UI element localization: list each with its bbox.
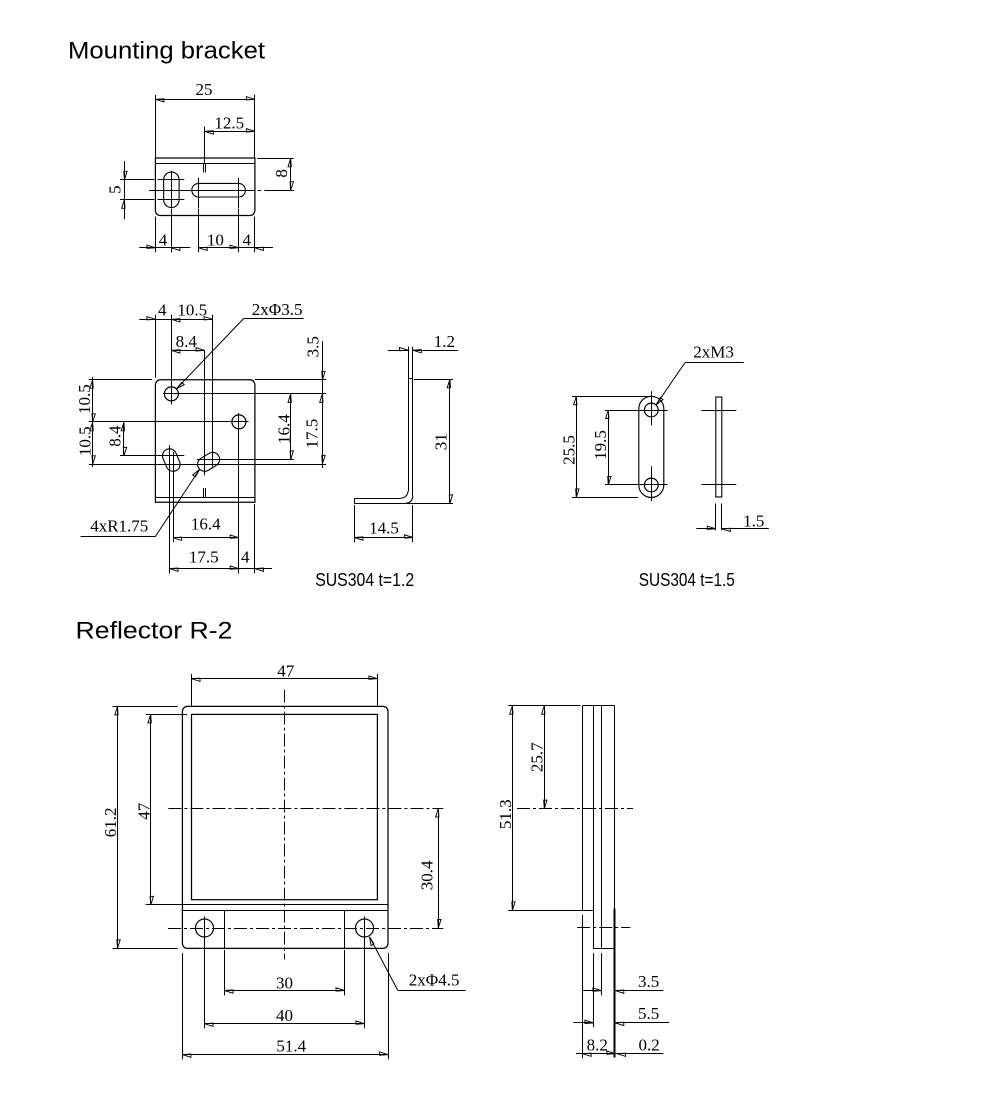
- svg-text:5: 5: [105, 185, 124, 194]
- reflector recess edges: [225, 910, 345, 948]
- svg-text:8.4: 8.4: [105, 425, 124, 447]
- svg-text:10.5: 10.5: [177, 301, 207, 320]
- side view vertical leg: [408, 347, 413, 497]
- svg-text:3.5: 3.5: [304, 336, 323, 357]
- bottom hole centerlines: [605, 466, 668, 501]
- svg-text:5.5: 5.5: [638, 1004, 659, 1023]
- reflector flange lines: [183, 905, 388, 911]
- dimension 12.5: [205, 113, 255, 134]
- dimension 16.4 bottom: [173, 515, 239, 541]
- dimension 25.5: [559, 396, 648, 497]
- bracket front view outline: [155, 380, 255, 503]
- side front face lines: [614, 706, 616, 1058]
- right hole centerlines: [89, 413, 249, 573]
- clamp plate bottom hole M3: [644, 478, 658, 492]
- svg-text:4: 4: [158, 301, 167, 320]
- front view bend notch: [204, 488, 206, 498]
- svg-text:51.3: 51.3: [496, 799, 515, 829]
- top view bottom extension lines: [156, 209, 255, 253]
- svg-text:8.4: 8.4: [176, 332, 198, 351]
- front view bend line: [155, 497, 255, 499]
- top hole centerlines: [163, 315, 326, 405]
- leader 4xR1.75: [81, 469, 200, 537]
- dimensions 4 and 10.5: [139, 301, 212, 378]
- dimension 14.5: [354, 505, 413, 542]
- top view vertical slot centerline: [171, 171, 173, 209]
- front view lower-middle slot: [195, 450, 222, 474]
- svg-text:2xΦ4.5: 2xΦ4.5: [409, 970, 460, 989]
- dimension 30: [225, 950, 345, 995]
- svg-text:25.5: 25.5: [559, 435, 578, 465]
- side hole centerline: [577, 927, 630, 929]
- top view bend notch: [204, 127, 206, 173]
- svg-text:25.7: 25.7: [527, 742, 546, 772]
- dimension 1.5: [696, 504, 769, 532]
- svg-text:19.5: 19.5: [591, 430, 610, 460]
- top view slot extension lines: [120, 180, 184, 200]
- leader 2xPhi3.5: [176, 300, 303, 389]
- svg-text:17.5: 17.5: [189, 548, 219, 567]
- clamp plate top hole M3: [644, 403, 658, 417]
- material note SUS304 t=1.2: [315, 570, 414, 590]
- reflector outline: [182, 706, 388, 948]
- svg-text:SUS304 t=1.2: SUS304 t=1.2: [315, 570, 414, 590]
- svg-text:17.5: 17.5: [303, 419, 322, 449]
- svg-text:Mounting bracket: Mounting bracket: [68, 37, 265, 64]
- svg-text:10.5: 10.5: [76, 426, 95, 456]
- leader 2xM3: [656, 342, 744, 405]
- side step edge / 51.3 ext: [508, 910, 593, 912]
- lower-left slot centerlines: [89, 445, 326, 573]
- dimension 8.4 left: [105, 422, 126, 456]
- svg-text:61.2: 61.2: [101, 808, 120, 838]
- svg-text:8: 8: [272, 169, 291, 178]
- bracket top view outline: [155, 158, 255, 216]
- material note SUS304 t=1.5: [639, 570, 735, 590]
- lower-middle slot centerlines: [197, 315, 294, 476]
- hole horizontal centerline: [168, 928, 443, 930]
- top view horizontal slot arc centerlines: [199, 178, 239, 208]
- dimension 16.4 right: [275, 394, 294, 460]
- svg-text:2xM3: 2xM3: [693, 342, 734, 361]
- svg-text:1.5: 1.5: [743, 511, 764, 530]
- dimension 31: [406, 379, 453, 503]
- side mid centerline: [517, 808, 633, 810]
- dimensions 3.5 and 17.5 right: [255, 336, 326, 468]
- svg-text:SUS304 t=1.5: SUS304 t=1.5: [639, 570, 735, 590]
- svg-text:16.4: 16.4: [275, 414, 294, 444]
- reflector horizontal centerline: [168, 808, 443, 810]
- dimension 61.2: [101, 706, 178, 948]
- clamp plate side view: [716, 397, 722, 497]
- dimensions 10.5 10.5 left: [75, 377, 152, 467]
- front view top hole: [164, 387, 178, 401]
- title: Mounting bracket: [68, 37, 265, 64]
- top view horizontal centerline: [149, 190, 294, 192]
- side line 3.5 + ext: [601, 706, 603, 996]
- svg-text:10.5: 10.5: [75, 384, 94, 414]
- svg-text:30.4: 30.4: [418, 860, 437, 890]
- dimension 8.4 top: [171, 332, 204, 353]
- svg-text:12.5: 12.5: [214, 113, 244, 132]
- dimension 47 left: [135, 714, 188, 905]
- dimensions 8.2 and 0.2: [576, 1036, 663, 1057]
- dimensions 4 10 4: [139, 231, 273, 251]
- dimension 30.4: [418, 809, 441, 929]
- clamp plate outline: [639, 396, 664, 497]
- side view hole centerlines: [701, 411, 736, 485]
- svg-text:4: 4: [243, 231, 252, 250]
- top view vertical slot: [164, 172, 180, 208]
- top hole centerlines: [605, 391, 668, 425]
- side view horizontal leg: [354, 498, 405, 503]
- reflector vertical centerline: [284, 690, 286, 960]
- svg-text:4: 4: [241, 548, 250, 567]
- reflector left hole: [196, 919, 214, 937]
- svg-text:2xΦ3.5: 2xΦ3.5: [252, 300, 303, 319]
- svg-text:Reflector R-2: Reflector R-2: [76, 618, 233, 645]
- dimension 25: [155, 80, 255, 157]
- reflector right hole: [356, 919, 374, 937]
- leader 2xPhi4.5: [370, 937, 466, 991]
- svg-text:4: 4: [159, 231, 168, 250]
- hole vertical centerlines: [205, 917, 365, 1029]
- reflector face square: [192, 714, 378, 899]
- svg-text:47: 47: [135, 802, 154, 820]
- svg-text:10: 10: [207, 231, 224, 250]
- dimension 51.3: [496, 706, 581, 911]
- side back edge + ext: [582, 706, 584, 1059]
- dimension 51.4: [182, 953, 388, 1060]
- bracket top view bend line: [155, 163, 255, 165]
- svg-text:16.4: 16.4: [191, 515, 221, 534]
- svg-text:3.5: 3.5: [638, 972, 659, 991]
- svg-text:47: 47: [277, 661, 295, 680]
- dimension 1.2: [388, 332, 458, 353]
- svg-text:1.2: 1.2: [434, 332, 455, 351]
- side top edge: [583, 705, 615, 707]
- svg-text:14.5: 14.5: [369, 519, 399, 538]
- svg-text:31: 31: [431, 433, 450, 450]
- dimensions 17.5 and 4 bottom: [170, 504, 273, 573]
- side line 5.5 + ext: [593, 706, 595, 1028]
- dimension 5: [105, 161, 127, 219]
- dimension 3.5 side: [583, 972, 664, 993]
- svg-text:40: 40: [276, 1006, 293, 1025]
- top view horizontal slot: [192, 183, 246, 197]
- svg-text:51.4: 51.4: [276, 1036, 306, 1055]
- svg-text:30: 30: [276, 973, 293, 992]
- dimension 47 top: [192, 661, 378, 705]
- svg-text:8.2: 8.2: [587, 1036, 608, 1055]
- dimension 19.5: [591, 410, 611, 485]
- side bottom edge: [593, 948, 615, 950]
- dimension 25.7: [527, 706, 547, 809]
- svg-text:25: 25: [196, 80, 213, 99]
- dimension 5.5: [573, 1004, 669, 1025]
- front view lower-left slot: [160, 447, 182, 474]
- svg-text:4xR1.75: 4xR1.75: [90, 516, 148, 535]
- front view right hole: [232, 415, 246, 429]
- svg-text:0.2: 0.2: [638, 1036, 659, 1055]
- side view bend fillets: [401, 491, 413, 503]
- dimension 8: [257, 158, 293, 190]
- title: Reflector R-2: [76, 618, 233, 645]
- dimension 40: [205, 1006, 365, 1026]
